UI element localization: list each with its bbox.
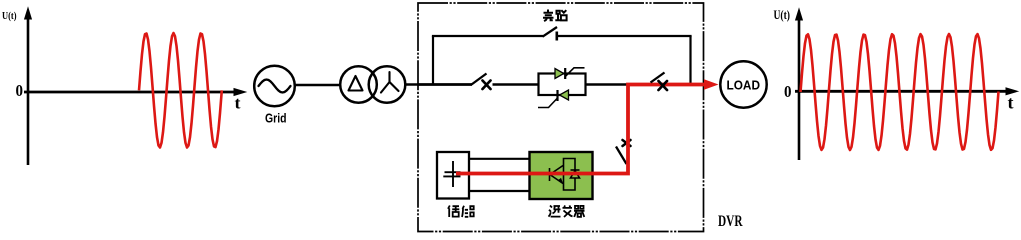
inverter green box [530,152,593,199]
injection path red wire [456,85,705,174]
switch S3 blade (before LOAD) [651,73,665,83]
transformer wye winding symbol [381,72,399,93]
transformer delta winding symbol [349,76,363,91]
switch S3 x mark [659,81,668,90]
bypass switch S1 blade [543,27,558,37]
bypass wire left vertical [432,36,434,85]
right graph x-axis [795,88,1018,95]
injection path red arrowhead [704,79,719,89]
switch S4 x mark [623,140,631,146]
AC source sine glyph [259,80,291,93]
right graph sine wave (restored voltage) [801,34,999,150]
thyristor SCR1 (top, right-pointing) [555,68,585,79]
svg-text:t: t [1008,93,1014,113]
right graph y-axis [796,9,803,160]
svg-text:0: 0 [16,81,24,100]
left graph sine wave (sagged source voltage) [139,33,222,148]
svg-text:U(t): U(t) [2,10,17,22]
DVR enclosure dash-dot box [418,3,704,232]
svg-text:DVR: DVR [718,213,743,230]
IGBT symbol inside inverter [550,159,580,191]
bypass label (CJK 旁路) [543,10,567,22]
transformer T1 secondary circle [369,66,406,103]
switch S2 blade [472,74,487,85]
switch S4 on injection path blade [616,147,627,165]
bypass switch S1 contact bar [555,32,558,41]
svg-text:U(t): U(t) [774,8,791,22]
switch S2 x mark [483,81,491,90]
wire storage to inverter top [469,158,530,160]
storage label 储能 (CJK) [448,206,474,218]
bypass wire right vertical [689,36,691,84]
main wire switch S2 to thyristor loop [493,83,539,86]
wire storage to inverter bottom [469,190,530,192]
thyristor loop wire rectangle [539,74,586,96]
svg-text:Grid: Grid [265,112,287,126]
AC source Grid circle [254,66,295,107]
svg-text:t: t [235,94,242,113]
main wire into switch S2 [418,83,472,86]
wire Grid to transformer [295,84,341,87]
capacitor symbol in storage box [443,161,460,187]
bypass wire horizontal right [558,35,692,37]
wire transformer to DVR enclosure [405,83,472,86]
LOAD circle [720,61,766,107]
inverter label 逆变器 (CJK) [549,205,585,217]
storage box [437,152,469,199]
svg-text:0: 0 [784,82,792,101]
svg-text:LOAD: LOAD [727,79,761,93]
bypass wire horizontal left [432,35,543,37]
transformer T1 primary circle [340,66,377,103]
left graph y-axis [25,8,32,165]
thyristor SCR2 (bottom, left-pointing) [538,90,569,108]
main wire thyristor loop to injection junction [586,83,631,86]
left graph x-axis [24,89,246,96]
